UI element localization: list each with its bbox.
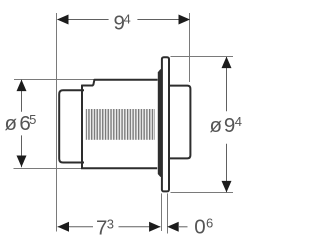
- extension line bottom right for dia 94: [171, 192, 234, 194]
- main body outline: [82, 80, 158, 86]
- collar ring before flange: [158, 69, 162, 177]
- arrow left of 94 top: [57, 15, 69, 25]
- arrow right of 94 top: [179, 15, 191, 25]
- dimension 06 bottom: arrow pointing left at flange right ext: [167, 222, 179, 232]
- extension line flange left bottom (x=161): [161, 193, 163, 231]
- left cylinder: [59, 90, 84, 162]
- button cylinder right of flange: [168, 86, 190, 159]
- arrow up of dia 94: [222, 57, 232, 69]
- arrow up of dia 65: [17, 80, 27, 92]
- dimension dia 65 left: line: [21, 80, 23, 112]
- dimension 73 bottom: line: [58, 226, 94, 228]
- extension line right (x=190) for 94 top: [189, 13, 191, 82]
- arrow down of dia 65: [17, 156, 27, 168]
- extension line flange right bottom (x=167): [167, 193, 169, 233]
- extension line bottom for dia 65: [14, 168, 85, 170]
- arrow right of 73: [149, 222, 161, 232]
- arrow down of dia 94: [222, 181, 232, 193]
- knurled thread band: [86, 109, 155, 140]
- extension line top right for dia 94: [171, 56, 234, 58]
- dimension dia 94 right: line: [226, 57, 228, 111]
- line of 06: [178, 226, 188, 228]
- dimension 94 top: line: [58, 19, 109, 21]
- mounting flange: [162, 57, 169, 191]
- extension line top for dia 65: [14, 79, 94, 81]
- extension line left (x=57) for 94 top and 73 bottom: [56, 13, 58, 232]
- arrow left of 73: [58, 222, 70, 232]
